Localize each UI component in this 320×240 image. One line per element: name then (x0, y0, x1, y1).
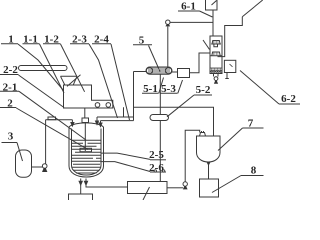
pump capsule 5-2 (150, 115, 169, 121)
meter tab on P-left (48, 117, 56, 120)
feed pipe P2 (101, 120, 134, 122)
riser valve V1 up (45, 120, 47, 164)
leader from label 1-1 to screw conveyor (40, 44, 65, 93)
box 5-3 (178, 69, 190, 78)
pipe long box to valve V4 (167, 187, 183, 189)
pipe conveyor5 to box 5-3 (172, 71, 178, 73)
reactor dome (69, 123, 104, 127)
inlet arrow left on dome (71, 120, 74, 126)
reflux pipe from corner into column (218, 17, 243, 57)
label 2-5 (149, 149, 166, 161)
leader from label 2 to reactor wall (16, 108, 88, 150)
bottom box C (cut) (69, 194, 93, 202)
leader from label 2-3 to feed pipe P1 (89, 44, 118, 118)
label 2-4 (92, 34, 111, 46)
leader from label 2-5 into reactor liquid (102, 153, 151, 159)
label 3 (2, 131, 18, 143)
valve V4 (183, 182, 188, 190)
feeder box (64, 85, 113, 108)
roller left in feeder housing (95, 103, 100, 108)
leader from label 7 to vessel 7 (218, 128, 243, 151)
branch from transfer line to P1 (123, 107, 125, 117)
drop pipe pump 5-2 to strainer box (159, 121, 161, 182)
box B right of column (224, 60, 235, 72)
reactor outer shell (69, 127, 104, 177)
label 2-1 (0, 82, 19, 94)
drop pipe conveyor 5 to pump 5-2 (159, 74, 161, 114)
manhole on dome (82, 118, 89, 123)
strainer long box (128, 182, 168, 194)
conveyor 5 inlet elbow (134, 71, 147, 73)
leader from label 2-1 into reactor (19, 91, 86, 140)
cross stroke over funnel (67, 75, 81, 87)
leader from label 1 to feeder box (18, 44, 64, 91)
tick inside box B (230, 64, 233, 67)
leader from label 2-6 into reactor liquid (102, 162, 151, 172)
label 2-2 (0, 64, 19, 76)
leader of cut-off bottom label into long box (143, 187, 150, 200)
label 6-1 (178, 0, 200, 12)
label 7 (243, 118, 264, 130)
valve V2 (165, 20, 170, 26)
pipe tank3 to valve (32, 166, 43, 168)
feed pipe P-left into reactor dome (46, 119, 73, 121)
funnel chute below conveyor 1 (61, 76, 78, 85)
leader from label 3 into tank 3 (17, 143, 23, 162)
screw conveyor capsule 1 (19, 66, 68, 71)
leader from label 6-2 to box B (240, 71, 279, 105)
screw conveyor 5 capsule (146, 67, 172, 74)
leader from label 5-2 to pump capsule (167, 95, 194, 117)
flange circle right on drop pipe (162, 170, 164, 172)
reactor bottom outlet arrow left (79, 179, 82, 186)
leader from label 8 to box 8 (212, 176, 241, 193)
drop pipe to bottom box C (80, 185, 82, 194)
vessel 7 bottom arrow (207, 162, 210, 165)
svg-text:6-2: 6-2 (281, 93, 296, 105)
label 5-1 (142, 83, 159, 95)
column feed from box 5-3 (190, 53, 211, 73)
valve V1 (circle with feet) (42, 164, 47, 172)
leader from label 2-4 to feed pipe P2 (111, 44, 130, 120)
riser from conveyor 5 inlet down to P2 (133, 72, 135, 121)
drop pipe vessel 7 to box 8 (208, 165, 210, 180)
label 1-2 (43, 34, 61, 46)
inlet arrow right on dome (P2) (99, 121, 102, 127)
leader from label 5 to conveyor 5 (149, 46, 161, 72)
label 2-3 (70, 34, 89, 46)
leader segment into column head (203, 40, 210, 50)
reactor inner wall (72, 129, 102, 176)
svg-text:3: 3 (8, 131, 14, 143)
flange circle left on drop pipe (154, 170, 156, 172)
roller right in feeder housing (106, 103, 111, 108)
column cap 2 and tray (210, 52, 222, 56)
box 8 (200, 179, 219, 197)
leader from label 1-2 into feeder box (61, 44, 85, 92)
svg-text:2-5: 2-5 (149, 149, 164, 161)
vessel 7 (197, 136, 221, 162)
inlet arrow mid on dome (P1) (96, 117, 99, 125)
valve V3 under column (214, 77, 218, 84)
leader from label 5-3 to box 5-3 (178, 80, 183, 93)
tick inside box A (212, 1, 217, 6)
tank 3 (cylinder) (16, 150, 32, 177)
leader of cut-off label 6 at top right corner (242, 0, 262, 17)
transfer line to vessel 7 (134, 107, 214, 136)
pipe reactor outlet to strainer long box (86, 185, 128, 187)
leader from label 6-1 to condenser pipe (200, 11, 213, 17)
label 1-1 (23, 34, 40, 46)
label 5-2 (194, 84, 212, 96)
vent pipe conveyor 5 to valve V2 (167, 26, 169, 67)
label 8 (241, 165, 264, 177)
agitator impeller (80, 148, 92, 151)
label 5 (133, 35, 152, 47)
reactor bottom outlet arrow right (84, 179, 87, 186)
riser valve V4 up to vessel 7 nozzle (185, 130, 200, 182)
label 6-2 (279, 93, 300, 105)
leader from label 2-2 (19, 75, 65, 108)
label 5-3 (161, 83, 178, 95)
liquid surface and level lines (72, 140, 102, 173)
label 1 (1, 34, 18, 46)
vessel 7 nozzle cap (200, 131, 206, 136)
svg-text:5-2: 5-2 (196, 84, 211, 96)
column cap 1 (211, 41, 221, 47)
downpipe box A to column top (212, 10, 214, 36)
label 2 (0, 98, 16, 110)
column packing band (210, 68, 222, 73)
drain stub of box B (225, 73, 229, 79)
agitator shaft (84, 123, 86, 152)
overhead pipe valve V2 to condenser downpipe (170, 21, 213, 23)
svg-text:8: 8 (251, 165, 257, 177)
condenser box A (top cut) (206, 0, 218, 10)
feed pipe P1 (97, 116, 134, 118)
label 2-6 (149, 162, 166, 174)
drop pipe feeder box to reactor manhole (84, 108, 86, 118)
leader from label 5-1 to conveyor 5 (159, 78, 164, 94)
distillation column shell (210, 36, 222, 74)
column bottom stub (214, 74, 219, 77)
